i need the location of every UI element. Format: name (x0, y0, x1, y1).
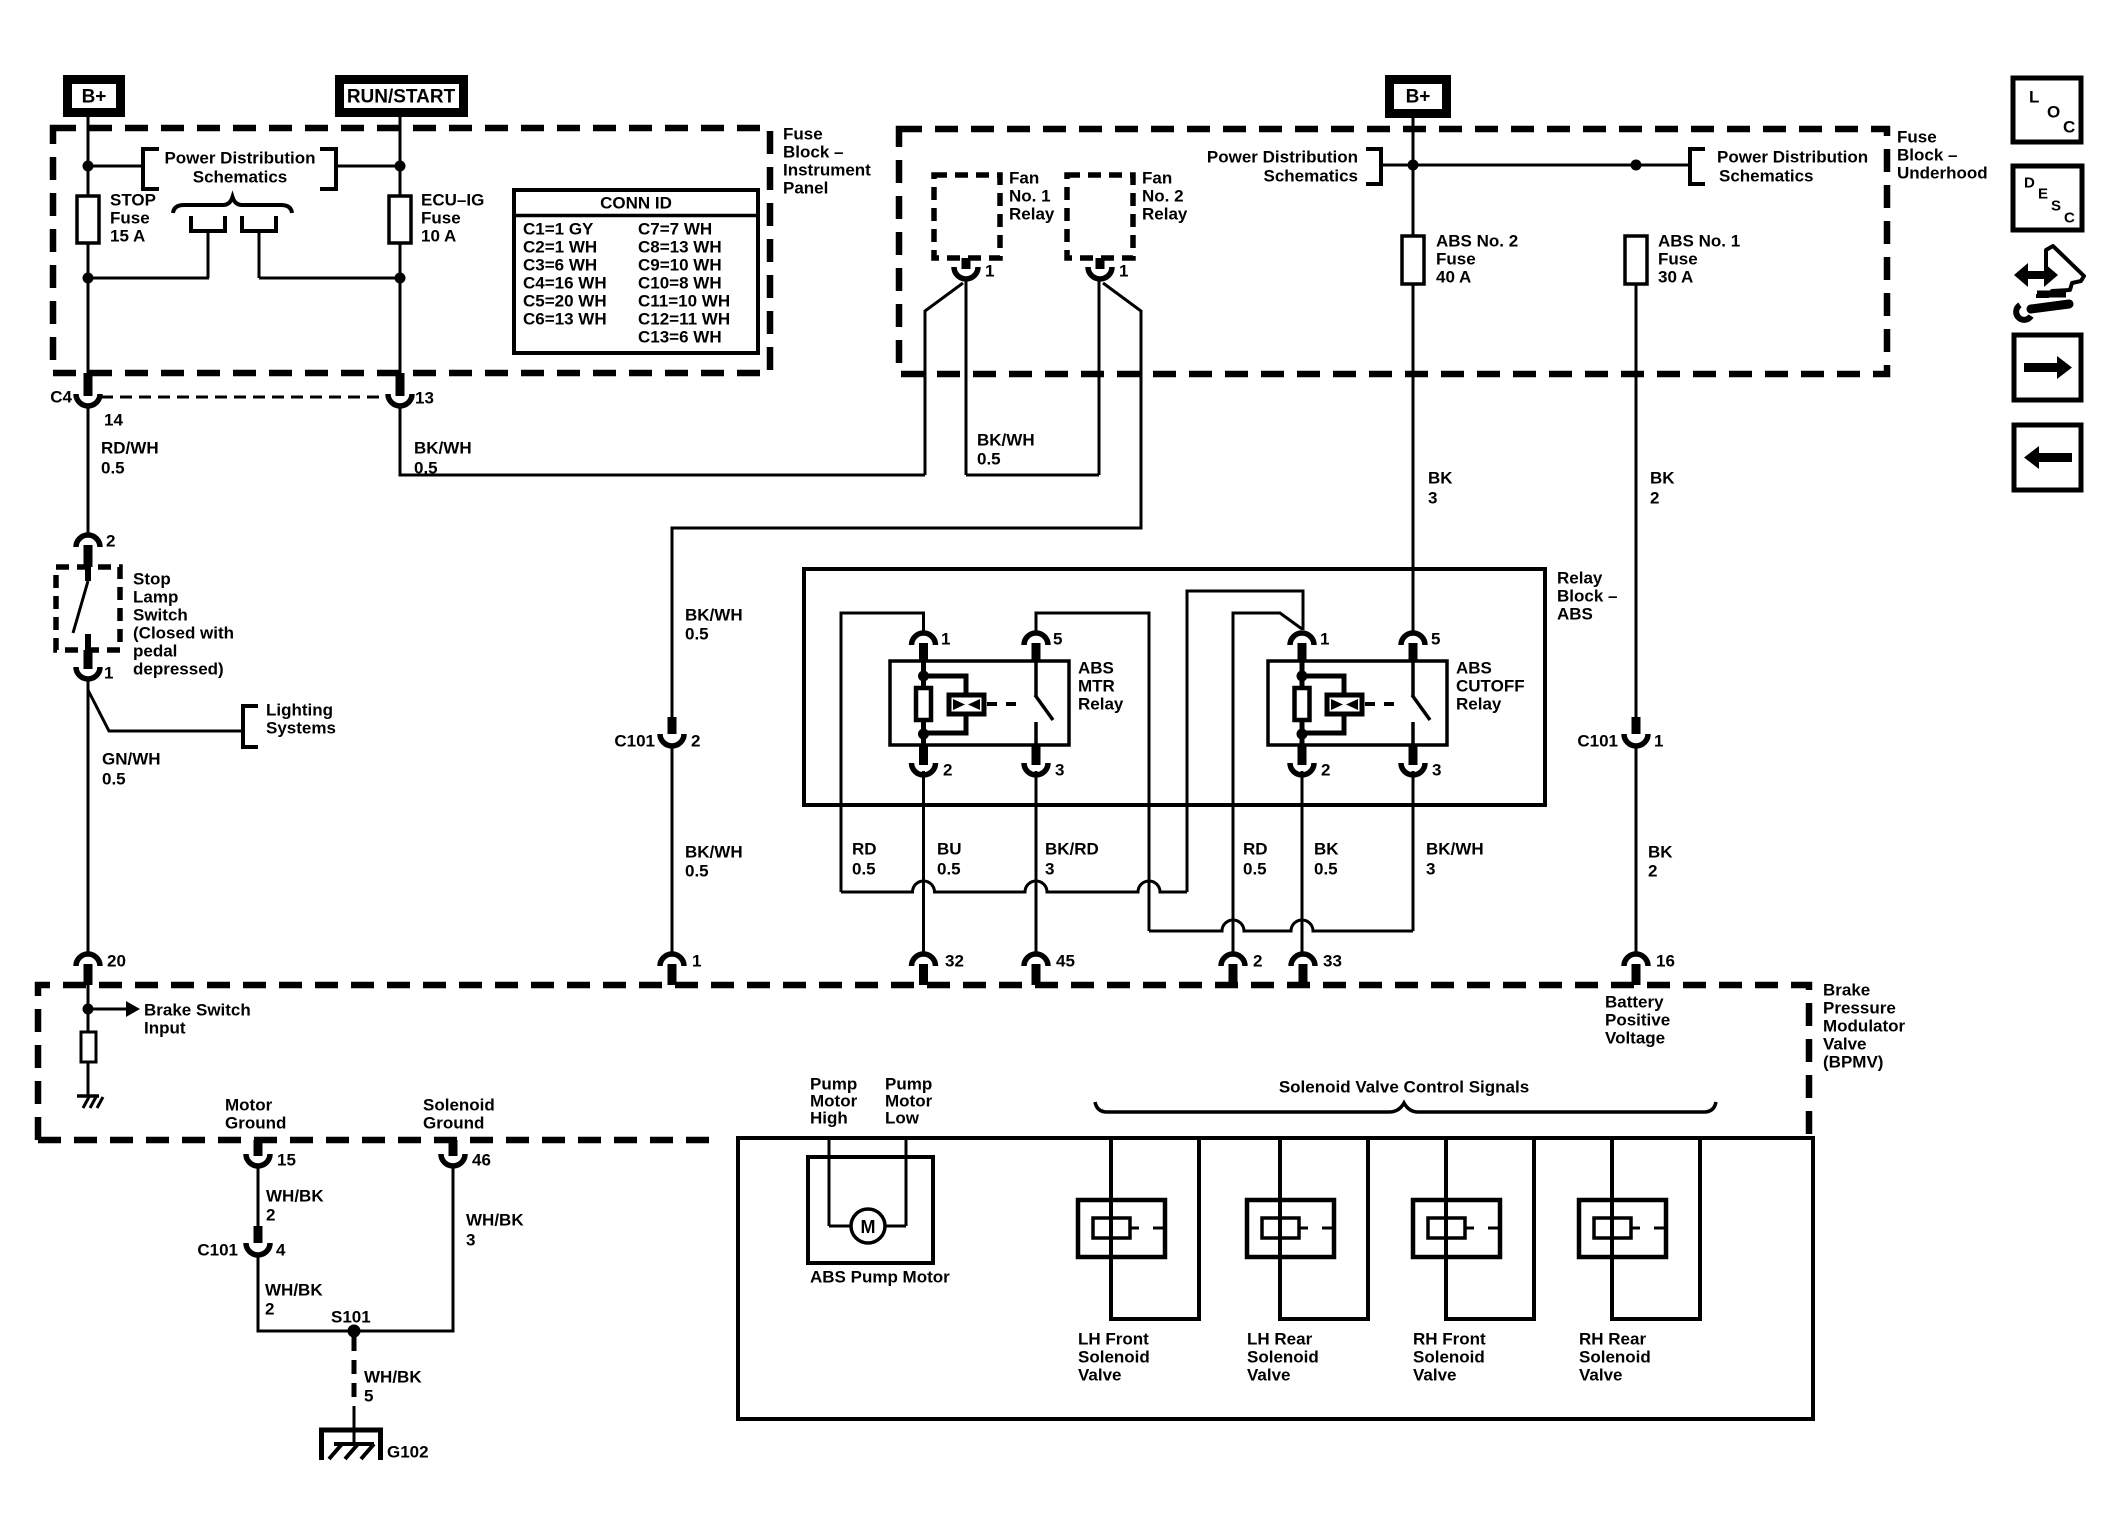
svg-text:0.5: 0.5 (937, 860, 961, 879)
resistor brake switch input element (81, 1032, 96, 1062)
svg-text:46: 46 (472, 1151, 491, 1170)
svg-text:Positive: Positive (1605, 1011, 1670, 1030)
svg-text:BK: BK (1428, 469, 1453, 488)
solenoid valve 2 (LH Rear) (1247, 1200, 1334, 1257)
svg-text:3: 3 (466, 1231, 475, 1250)
svg-text:Schematics: Schematics (193, 168, 288, 187)
relay block - ABS (outline) (804, 569, 1545, 805)
ABS MTR relay actuation dashes (987, 702, 1023, 706)
svg-text:0.5: 0.5 (1243, 860, 1267, 879)
svg-text:ABS Pump Motor: ABS Pump Motor (810, 1268, 950, 1287)
ABS MTR relay coil (921, 661, 926, 688)
wire BK/WH 0.5 from C4-13 to fan relay 1 (400, 406, 925, 475)
svg-text:B+: B+ (82, 87, 107, 108)
solenoid valve 1 (LH Front) (1078, 1200, 1165, 1257)
stop lamp switch pin 1 (84, 650, 93, 669)
svg-text:Relay: Relay (1142, 205, 1188, 224)
svg-text:C7=7 WH: C7=7 WH (638, 220, 712, 239)
fuse block - underhood (dashed outline) (899, 129, 1887, 374)
svg-text:2: 2 (1321, 761, 1330, 780)
wire WH/BK 2 from C101-4 to S101 (258, 1255, 349, 1331)
svg-text:1: 1 (1119, 262, 1128, 281)
svg-text:Solenoid: Solenoid (1579, 1348, 1651, 1367)
wire pump motor high (828, 1138, 831, 1226)
fan no. 1 relay pin 1 (962, 258, 971, 269)
BPMV pin 32 (912, 954, 936, 966)
svg-text:RH Rear: RH Rear (1579, 1330, 1646, 1349)
stop lamp switch contacts (85, 567, 91, 581)
svg-text:Fuse: Fuse (783, 125, 823, 144)
svg-text:3: 3 (1428, 489, 1437, 508)
stop lamp switch pin 2 (76, 535, 100, 547)
svg-text:Solenoid: Solenoid (1078, 1348, 1150, 1367)
wire BK 0.5 cutoff pin2 to BPMV pin 33 (1301, 771, 1304, 954)
fuse ECU-IG 10A (389, 196, 411, 243)
ABS MTR relay pin 5 (1024, 633, 1048, 645)
svg-text:C10=8 WH: C10=8 WH (638, 274, 722, 293)
svg-text:Brake Switch: Brake Switch (144, 1001, 251, 1020)
svg-text:Voltage: Voltage (1605, 1029, 1665, 1048)
svg-text:pedal: pedal (133, 642, 177, 661)
fuse ABS No. 2 40A (1402, 236, 1424, 284)
junction node B+ bus left (1408, 160, 1419, 171)
BPMV pin 16 (1624, 954, 1648, 966)
svg-text:D: D (2024, 175, 2035, 192)
svg-text:C11=10 WH: C11=10 WH (638, 292, 730, 311)
brace solenoid valve control signals (1095, 1102, 1716, 1112)
svg-text:depressed): depressed) (133, 660, 224, 679)
svg-text:ABS No. 1: ABS No. 1 (1658, 232, 1740, 251)
svg-text:O: O (2047, 103, 2060, 122)
svg-text:C12=11 WH: C12=11 WH (638, 310, 730, 329)
svg-text:C5=20 WH: C5=20 WH (523, 292, 607, 311)
svg-text:1: 1 (941, 630, 950, 649)
svg-text:0.5: 0.5 (101, 459, 125, 478)
ABS MTR relay coil loop (921, 676, 966, 697)
svg-text:30 A: 30 A (1658, 268, 1693, 287)
svg-text:0.5: 0.5 (977, 450, 1001, 469)
svg-text:WH/BK: WH/BK (466, 1211, 524, 1230)
svg-text:BK: BK (1314, 840, 1339, 859)
svg-text:M: M (861, 1217, 876, 1237)
svg-text:5: 5 (1431, 630, 1440, 649)
svg-text:E: E (2038, 186, 2048, 203)
svg-text:ECU–IG: ECU–IG (421, 191, 484, 210)
wire BK 2 from ABS No.1 fuse to C101 (1635, 284, 1638, 717)
wire fan relay 2 to C101-2 (672, 283, 1141, 717)
svg-text:BK/WH: BK/WH (685, 843, 743, 862)
power distribution sub-feed box 2 (242, 216, 276, 231)
solenoid valve 4 (RH Rear) (1579, 1200, 1666, 1257)
svg-text:Solenoid: Solenoid (423, 1096, 495, 1115)
svg-text:2: 2 (943, 761, 952, 780)
wire fan relay 2 drop (1098, 277, 1101, 475)
ABS CUTOFF relay switch (1411, 661, 1415, 696)
ABS CUTOFF relay coil loop (1300, 676, 1345, 697)
svg-text:S101: S101 (331, 1308, 371, 1327)
svg-text:0.5: 0.5 (102, 770, 126, 789)
svg-text:1: 1 (985, 262, 994, 281)
ABS MTR relay pin 1 (912, 633, 936, 645)
wire fan bus segment (966, 474, 1099, 477)
connector C4 dashed line (101, 396, 388, 399)
wire BK 3 from ABS No.2 fuse to cutoff relay pin 5 (1412, 284, 1415, 633)
BPMV pin 15 motor ground (254, 1140, 263, 1156)
ABS MTR relay pin 2 (919, 745, 928, 765)
svg-text:ABS No. 2: ABS No. 2 (1436, 232, 1518, 251)
svg-text:LH Front: LH Front (1078, 1330, 1149, 1349)
svg-text:Battery: Battery (1605, 993, 1664, 1012)
svg-text:C2=1 WH: C2=1 WH (523, 238, 597, 257)
ABS CUTOFF relay solenoid symbol (1327, 695, 1362, 714)
svg-text:No. 2: No. 2 (1142, 187, 1184, 206)
svg-text:3: 3 (1426, 860, 1435, 879)
svg-text:20: 20 (107, 952, 126, 971)
svg-text:Panel: Panel (783, 179, 828, 198)
svg-text:LH Rear: LH Rear (1247, 1330, 1313, 1349)
svg-text:Switch: Switch (133, 606, 188, 625)
wire pump motor low (905, 1138, 908, 1226)
svg-text:2: 2 (1650, 489, 1659, 508)
svg-text:0.5: 0.5 (685, 625, 709, 644)
reference bracket ] power distribution (underhood left) (1366, 149, 1381, 184)
svg-text:(BPMV): (BPMV) (1823, 1053, 1883, 1072)
wire B+ bus (1381, 164, 1690, 167)
svg-text:WH/BK: WH/BK (265, 1281, 323, 1300)
brace under power distribution reference (173, 197, 292, 213)
icon box DESC (2013, 166, 2082, 230)
svg-text:Fuse: Fuse (110, 209, 150, 228)
svg-text:Brake: Brake (1823, 981, 1870, 1000)
svg-text:Block –: Block – (1897, 146, 1957, 165)
splice S101 (348, 1325, 361, 1338)
BPMV pin 33 (1291, 954, 1315, 966)
svg-text:1: 1 (104, 664, 113, 683)
svg-text:RUN/START: RUN/START (347, 87, 456, 108)
svg-text:BK/WH: BK/WH (977, 431, 1035, 450)
svg-text:ABS: ABS (1557, 605, 1593, 624)
wire sub-feed 1 to STOP fuse node (88, 277, 209, 280)
svg-text:15 A: 15 A (110, 227, 145, 246)
svg-text:BK: BK (1648, 843, 1673, 862)
solenoid valve 4 wiring (1612, 1138, 1700, 1319)
ABS CUTOFF relay pin 2 (1298, 745, 1307, 765)
junction node B+ bus right (1631, 160, 1642, 171)
svg-text:2: 2 (265, 1300, 274, 1319)
solenoid valve 3 (RH Front) (1413, 1200, 1500, 1257)
svg-text:1: 1 (1320, 630, 1329, 649)
svg-text:BK/WH: BK/WH (1426, 840, 1484, 859)
svg-text:0.5: 0.5 (852, 860, 876, 879)
reference bracket [ power distribution (143, 149, 159, 189)
svg-text:5: 5 (1053, 630, 1062, 649)
svg-text:(Closed with: (Closed with (133, 624, 234, 643)
svg-text:Lamp: Lamp (133, 588, 178, 607)
svg-text:Low: Low (885, 1109, 920, 1128)
motor M1 ABS pump motor (851, 1209, 885, 1243)
svg-text:G102: G102 (387, 1443, 429, 1462)
junction node ECU-IG lower (395, 273, 406, 284)
wire RD 0.5 MTR pin1 loop to cutoff pin 1 (841, 613, 924, 892)
wire branch to lighting systems (88, 690, 243, 731)
solenoid valve 1 wiring (1111, 1138, 1199, 1319)
svg-text:Pressure: Pressure (1823, 999, 1896, 1018)
svg-text:14: 14 (104, 411, 123, 430)
connector ID table (514, 190, 758, 353)
ABS pump motor box (808, 1157, 933, 1263)
reference bracket [ power distribution (underhood right) (1690, 149, 1705, 184)
svg-text:RD/WH: RD/WH (101, 439, 159, 458)
svg-text:WH/BK: WH/BK (364, 1368, 422, 1387)
svg-text:Valve: Valve (1078, 1366, 1122, 1385)
wire fan relay 1 pin to bus (965, 277, 968, 475)
stop lamp switch (dashed outline) (56, 567, 120, 650)
svg-text:Lighting: Lighting (266, 701, 333, 720)
wire GN/WH down to BPMV pin 20 (87, 677, 90, 954)
svg-text:C101: C101 (197, 1241, 238, 1260)
wire sub-feed 2 to ECU-IG node (259, 277, 400, 280)
svg-text:Valve: Valve (1247, 1366, 1291, 1385)
svg-text:BK: BK (1650, 469, 1675, 488)
svg-text:Valve: Valve (1413, 1366, 1457, 1385)
BPMV internal component box (738, 1138, 1813, 1419)
wire WH/BK 5 to ground (dashed) (352, 1337, 357, 1399)
wire RD 0.5 BPMV pin2 to cutoff pin 1 (1233, 613, 1302, 954)
ABS MTR relay switch (1034, 661, 1038, 696)
svg-text:2: 2 (691, 732, 700, 751)
svg-text:Fuse: Fuse (421, 209, 461, 228)
wire to power distribution reference (left) (88, 165, 143, 168)
svg-text:High: High (810, 1109, 848, 1128)
svg-text:Power Distribution: Power Distribution (1717, 148, 1868, 167)
connector C101 pin 4 (254, 1226, 263, 1243)
junction node on STOP fuse feed (83, 161, 94, 172)
wire WH/BK 2 pin15 to C101-4 (257, 1164, 260, 1226)
icon box forward arrow (2014, 335, 2081, 400)
wire to internal ground (87, 1062, 90, 1095)
wire BU 0.5 MTR pin2 to BPMV pin 32 (922, 771, 925, 954)
fuse STOP 15A (77, 196, 99, 243)
svg-text:C101: C101 (1577, 732, 1618, 751)
solenoid valve 3 wiring (1446, 1138, 1534, 1319)
svg-text:BK/WH: BK/WH (414, 439, 472, 458)
svg-text:45: 45 (1056, 952, 1075, 971)
solenoid valve 2 wiring (1280, 1138, 1368, 1319)
svg-text:C8=13 WH: C8=13 WH (638, 238, 722, 257)
svg-text:40 A: 40 A (1436, 268, 1471, 287)
reference bracket lighting systems (243, 706, 258, 747)
svg-text:RD: RD (1243, 840, 1268, 859)
ABS CUTOFF relay pin 3 (1409, 745, 1418, 765)
wire RD/WH to stop lamp switch (87, 406, 90, 535)
svg-text:CUTOFF: CUTOFF (1456, 677, 1525, 696)
wire B+ underhood feed (1412, 112, 1415, 236)
svg-text:No. 1: No. 1 (1009, 187, 1051, 206)
ABS MTR relay pin 3 (1032, 745, 1041, 765)
BPMV pin 45 (1024, 954, 1048, 966)
connector C101 pin 2 (668, 717, 677, 734)
ground G102 symbol (319, 1428, 383, 1433)
icon car with arrow and wrench (2014, 263, 2058, 287)
wire STOP fuse to connector C4-14 (87, 243, 90, 374)
svg-text:2: 2 (266, 1206, 275, 1225)
svg-text:2: 2 (1648, 862, 1657, 881)
svg-text:Valve: Valve (1579, 1366, 1623, 1385)
svg-text:32: 32 (945, 952, 964, 971)
svg-text:2: 2 (1253, 952, 1262, 971)
svg-text:1: 1 (692, 952, 701, 971)
svg-text:Relay: Relay (1456, 695, 1502, 714)
svg-text:3: 3 (1432, 761, 1441, 780)
svg-text:ABS: ABS (1456, 659, 1492, 678)
svg-text:BU: BU (937, 840, 962, 859)
svg-text:GN/WH: GN/WH (102, 750, 161, 769)
relay ABS MTR body (890, 661, 1069, 745)
wire to power distribution reference (right) (336, 165, 400, 168)
svg-text:15: 15 (277, 1151, 296, 1170)
svg-text:STOP: STOP (110, 191, 156, 210)
wire BK/WH 3 cutoff pin3 to MTR pin5 (1036, 613, 1149, 931)
connector C101 pin 1 (1632, 717, 1641, 734)
brake pressure modulator valve BPMV (dashed outline) (38, 985, 1809, 1140)
svg-text:Motor: Motor (225, 1096, 273, 1115)
svg-text:Power Distribution: Power Distribution (1207, 148, 1358, 167)
svg-text:C13=6 WH: C13=6 WH (638, 328, 722, 347)
svg-text:Fuse: Fuse (1897, 128, 1937, 147)
svg-text:Fan: Fan (1009, 169, 1039, 188)
svg-text:C1=1 GY: C1=1 GY (523, 220, 594, 239)
svg-text:Solenoid Valve Control Signals: Solenoid Valve Control Signals (1279, 1078, 1529, 1097)
BPMV pin 2 (1221, 954, 1245, 966)
ABS MTR relay solenoid symbol (949, 695, 984, 714)
svg-text:3: 3 (1055, 761, 1064, 780)
svg-text:C3=6 WH: C3=6 WH (523, 256, 597, 275)
svg-text:S: S (2051, 198, 2061, 215)
svg-text:Power Distribution: Power Distribution (164, 149, 315, 168)
ABS CUTOFF relay pin 5 (1401, 633, 1425, 645)
junction node brake switch input (83, 1004, 94, 1015)
svg-text:Solenoid: Solenoid (1247, 1348, 1319, 1367)
ABS CUTOFF relay coil (1300, 661, 1305, 688)
svg-text:0.5: 0.5 (1314, 860, 1338, 879)
power terminal RUN/START (340, 80, 464, 113)
svg-text:Underhood: Underhood (1897, 164, 1988, 183)
BPMV pin 1 (660, 954, 684, 966)
power distribution sub-feed box 1 (191, 216, 225, 231)
svg-text:RD: RD (852, 840, 877, 859)
fuse ABS No. 1 30A (1625, 236, 1647, 284)
svg-text:C: C (2064, 210, 2075, 227)
junction node on ECU-IG fuse feed (395, 161, 406, 172)
power terminal B+ (underhood feed) (1390, 80, 1447, 114)
svg-text:L: L (2029, 88, 2039, 107)
svg-text:4: 4 (276, 1241, 286, 1260)
svg-text:C9=10 WH: C9=10 WH (638, 256, 722, 275)
svg-text:C4: C4 (50, 388, 72, 407)
wire BK/RD 3 MTR pin3 to BPMV pin 45 (1035, 771, 1038, 954)
wire WH/BK 5 to G102 (353, 1406, 356, 1444)
svg-text:Modulator: Modulator (1823, 1017, 1906, 1036)
svg-text:13: 13 (415, 389, 434, 408)
BPMV pin 20 (76, 954, 100, 966)
connector C4 pin 13 (396, 373, 405, 396)
svg-text:3: 3 (1045, 860, 1054, 879)
svg-text:Input: Input (144, 1019, 186, 1038)
wire pin 20 into BPMV (87, 985, 90, 1032)
svg-text:16: 16 (1656, 952, 1675, 971)
relay ABS CUTOFF body (1268, 661, 1447, 745)
svg-text:Solenoid: Solenoid (1413, 1348, 1485, 1367)
junction node STOP fuse lower (83, 273, 94, 284)
svg-text:C: C (2063, 118, 2075, 137)
ABS CUTOFF relay actuation dashes (1365, 702, 1401, 706)
svg-text:MTR: MTR (1078, 677, 1115, 696)
svg-text:RH Front: RH Front (1413, 1330, 1486, 1349)
wire RUN/START feed into fuse block (399, 112, 402, 196)
svg-text:C4=16 WH: C4=16 WH (523, 274, 607, 293)
ABS CUTOFF relay pin 1 (1290, 633, 1314, 645)
svg-text:Fuse: Fuse (1436, 250, 1476, 269)
power terminal B+ (instrument panel feed) (68, 80, 121, 113)
fuse block - instrument panel (dashed outline) (53, 128, 770, 373)
wire WH/BK 3 pin46 to S101 (359, 1164, 453, 1331)
fan no. 2 relay pin 1 (1096, 258, 1105, 269)
svg-text:5: 5 (364, 1387, 373, 1406)
BPMV pin 46 solenoid ground (449, 1140, 458, 1156)
brake switch input arrow (92, 1008, 126, 1011)
svg-text:Fuse: Fuse (1658, 250, 1698, 269)
svg-text:Ground: Ground (423, 1114, 484, 1133)
svg-text:B+: B+ (1406, 87, 1431, 108)
wire ECU-IG fuse to connector C4-13 (399, 243, 402, 374)
svg-text:Systems: Systems (266, 719, 336, 738)
svg-text:CONN ID: CONN ID (600, 194, 672, 213)
svg-text:Instrument: Instrument (783, 161, 871, 180)
wire BK/WH 0.5 from C101-2 to BPMV pin 1 (671, 746, 674, 954)
svg-text:BK/RD: BK/RD (1045, 840, 1099, 859)
icon box LOC (2013, 78, 2081, 142)
svg-text:ABS: ABS (1078, 659, 1114, 678)
svg-text:10 A: 10 A (421, 227, 456, 246)
svg-text:33: 33 (1323, 952, 1342, 971)
svg-text:0.5: 0.5 (685, 862, 709, 881)
svg-text:C101: C101 (614, 732, 655, 751)
icon box back arrow (2014, 425, 2081, 490)
fan no. 2 relay (dashed outline) (1067, 175, 1133, 258)
svg-text:2: 2 (106, 532, 115, 551)
wire BK 2 from C101-1 to BPMV pin 16 (1635, 746, 1638, 954)
svg-text:1: 1 (1654, 732, 1663, 751)
ground chassis symbol (internal) (77, 1094, 99, 1098)
svg-text:C6=13 WH: C6=13 WH (523, 310, 607, 329)
svg-text:Stop: Stop (133, 570, 171, 589)
svg-text:Fan: Fan (1142, 169, 1172, 188)
fan no. 1 relay (dashed outline) (934, 175, 1000, 258)
svg-text:Relay: Relay (1557, 569, 1603, 588)
svg-text:BK/WH: BK/WH (685, 606, 743, 625)
svg-text:Relay: Relay (1078, 695, 1124, 714)
svg-text:WH/BK: WH/BK (266, 1187, 324, 1206)
connector C4 pin 14 (84, 373, 93, 396)
svg-text:Block –: Block – (783, 143, 843, 162)
svg-text:Relay: Relay (1009, 205, 1055, 224)
svg-text:Valve: Valve (1823, 1035, 1867, 1054)
wire B+ feed into fuse block (87, 112, 90, 196)
reference bracket ] power distribution (320, 149, 336, 189)
svg-text:Ground: Ground (225, 1114, 286, 1133)
svg-text:Block –: Block – (1557, 587, 1617, 606)
svg-text:Schematics: Schematics (1719, 167, 1814, 186)
